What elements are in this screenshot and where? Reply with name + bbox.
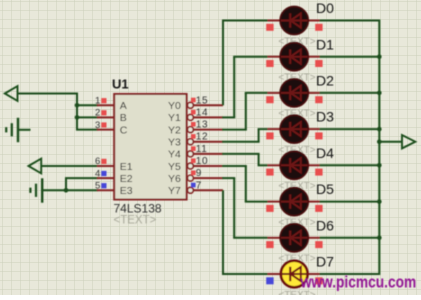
svg-text:15: 15 [196, 95, 208, 106]
svg-text:3: 3 [95, 120, 100, 131]
svg-text:9: 9 [196, 168, 202, 179]
svg-text:13: 13 [196, 120, 208, 131]
svg-text:D1: D1 [316, 36, 334, 52]
svg-text:10: 10 [196, 156, 208, 167]
svg-text:14: 14 [196, 107, 208, 118]
svg-text:A: A [120, 100, 127, 112]
svg-text:www.picmcu.com: www.picmcu.com [300, 273, 416, 291]
svg-text:D5: D5 [316, 181, 334, 197]
svg-text:Y5: Y5 [168, 161, 181, 173]
svg-text:5: 5 [95, 181, 100, 192]
svg-text:Y6: Y6 [168, 173, 181, 185]
svg-text:Y1: Y1 [168, 112, 181, 124]
svg-text:11: 11 [196, 144, 208, 155]
svg-text:1: 1 [95, 96, 100, 107]
svg-text:D4: D4 [316, 145, 334, 161]
svg-text:12: 12 [196, 132, 208, 143]
svg-text:D2: D2 [316, 73, 334, 89]
svg-text:Y4: Y4 [168, 149, 181, 161]
svg-text:Y7: Y7 [168, 185, 181, 197]
svg-text:7: 7 [196, 180, 202, 191]
svg-text:D3: D3 [316, 109, 334, 125]
svg-text:B: B [120, 112, 127, 124]
svg-text:74LS138: 74LS138 [114, 202, 162, 216]
svg-text:Y0: Y0 [168, 100, 181, 112]
svg-text:U1: U1 [112, 77, 129, 92]
svg-text:D0: D0 [316, 0, 334, 16]
svg-text:E1: E1 [120, 161, 133, 173]
svg-text:4: 4 [95, 168, 100, 179]
svg-text:C: C [120, 124, 128, 136]
svg-text:6: 6 [95, 156, 100, 167]
svg-text:2: 2 [95, 108, 100, 119]
svg-text:D6: D6 [316, 217, 334, 233]
svg-text:E2: E2 [120, 173, 133, 185]
svg-text:D7: D7 [316, 254, 334, 270]
svg-text:E3: E3 [120, 185, 133, 197]
svg-text:<TEXT>: <TEXT> [114, 215, 157, 227]
svg-text:Y3: Y3 [168, 137, 181, 149]
svg-text:Y2: Y2 [168, 124, 181, 136]
